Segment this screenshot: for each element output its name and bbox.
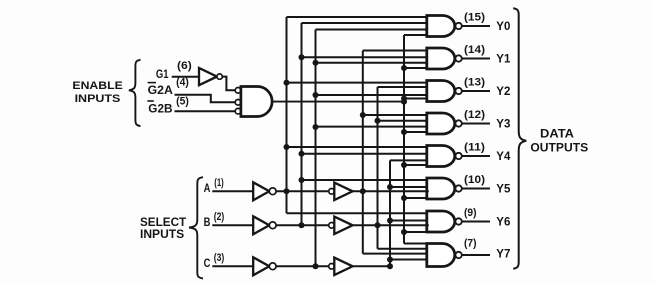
svg-text:(12): (12): [464, 109, 485, 121]
svg-text:Y3: Y3: [496, 119, 510, 131]
svg-text:G1: G1: [156, 69, 169, 81]
svg-text:(5): (5): [176, 95, 189, 107]
svg-text:(3): (3): [214, 252, 225, 264]
svg-text:Y4: Y4: [496, 151, 511, 163]
svg-text:A: A: [204, 183, 211, 195]
svg-text:(10): (10): [464, 174, 485, 186]
svg-text:G2B: G2B: [148, 104, 172, 116]
svg-text:Y0: Y0: [496, 21, 510, 33]
svg-text:OUTPUTS: OUTPUTS: [530, 141, 588, 155]
svg-text:(15): (15): [464, 12, 485, 24]
svg-text:SELECT: SELECT: [140, 217, 186, 229]
svg-text:(9): (9): [464, 207, 477, 219]
svg-text:(13): (13): [464, 77, 485, 89]
svg-text:ENABLE: ENABLE: [72, 80, 123, 92]
svg-text:C: C: [204, 258, 211, 270]
svg-text:DATA: DATA: [540, 126, 574, 140]
svg-text:Y1: Y1: [496, 54, 511, 66]
svg-text:INPUTS: INPUTS: [140, 229, 185, 241]
svg-text:INPUTS: INPUTS: [75, 93, 121, 105]
svg-text:Y2: Y2: [496, 86, 510, 98]
svg-text:(7): (7): [464, 237, 477, 249]
svg-text:Y7: Y7: [496, 249, 510, 261]
svg-text:(14): (14): [464, 44, 485, 56]
svg-text:(1): (1): [214, 177, 224, 189]
svg-text:G2A: G2A: [148, 85, 173, 97]
svg-text:(4): (4): [176, 77, 189, 89]
svg-text:B: B: [204, 217, 211, 229]
svg-text:Y5: Y5: [496, 184, 511, 196]
svg-text:(11): (11): [464, 142, 485, 154]
svg-text:Y6: Y6: [496, 217, 510, 229]
svg-text:(2): (2): [214, 211, 225, 223]
svg-text:(6): (6): [177, 60, 192, 72]
